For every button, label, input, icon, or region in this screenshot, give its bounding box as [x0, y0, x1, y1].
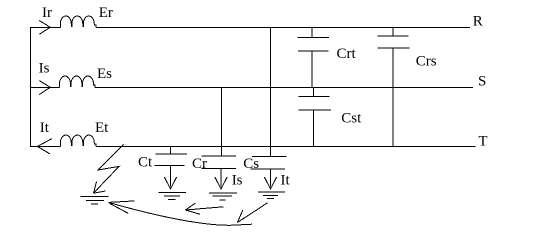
- wire line R (left segment): [30, 26, 60, 28]
- ground earth electrode (bottom left): [81, 197, 109, 205]
- svg-text:Er: Er: [99, 5, 113, 21]
- arrow current Is on line S: [39, 81, 50, 95]
- svg-text:Crt: Crt: [337, 46, 357, 62]
- capacitor Cs (R to ground): [251, 157, 287, 169]
- wire line T (right segment to terminal T): [96, 145, 475, 147]
- arrow lightning stroke from line T to earth: [94, 145, 124, 194]
- capacitor Ct (T to ground): [154, 154, 187, 166]
- ground under Cr: [209, 193, 237, 200]
- svg-text:R: R: [473, 14, 483, 30]
- inductor Er (coil on line R): [60, 16, 96, 27]
- arrow ground current under Ct: [164, 166, 177, 189]
- svg-text:It: It: [281, 173, 291, 189]
- svg-text:Cst: Cst: [341, 111, 362, 127]
- wire dropper from S to Cr: [220, 87, 222, 156]
- arrow ground current Is under Cr: [215, 169, 228, 189]
- arrow earth-return from Cr ground: [185, 203, 223, 214]
- inductor Es (coil on line S): [60, 76, 96, 87]
- svg-text:Ct: Ct: [138, 154, 153, 170]
- svg-text:Is: Is: [39, 61, 50, 77]
- arrow earth-return from Cs ground: [237, 203, 267, 223]
- inductor Et (coil on line T): [60, 135, 96, 146]
- arrow current Ir on line R: [39, 21, 50, 35]
- wire line S (left segment): [30, 86, 60, 88]
- svg-text:Es: Es: [97, 66, 112, 82]
- wire line S (right segment to terminal S): [95, 86, 473, 88]
- svg-text:Ir: Ir: [42, 5, 52, 21]
- ground under Cs: [258, 192, 285, 199]
- arrow ground current It under Cs: [264, 169, 277, 189]
- wire dropper from T to Ct: [170, 146, 172, 153]
- capacitor Crt (between R and S): [297, 27, 329, 87]
- svg-text:Et: Et: [95, 120, 109, 136]
- arrow current It on line T (pointing left): [37, 139, 51, 154]
- svg-text:It: It: [40, 120, 50, 136]
- svg-text:Crs: Crs: [416, 54, 437, 70]
- svg-text:S: S: [478, 73, 486, 89]
- wire dropper from R to Cs: [270, 27, 272, 156]
- svg-text:Cr: Cr: [192, 156, 207, 172]
- capacitor Crs (between R and T): [378, 27, 410, 146]
- ground under Ct: [159, 192, 186, 199]
- wire line R (right segment to terminal R): [96, 26, 470, 28]
- svg-text:T: T: [478, 134, 487, 150]
- wire left rail (phase input bus): [30, 27, 32, 146]
- svg-text:Cs: Cs: [243, 156, 259, 172]
- capacitor Cr (S to ground): [202, 156, 237, 169]
- svg-text:Is: Is: [232, 173, 243, 189]
- capacitor Cst (between S and T): [299, 87, 331, 146]
- wire line T (left segment): [30, 145, 60, 147]
- arrow curved earth-return path to left ground: [109, 201, 252, 225]
